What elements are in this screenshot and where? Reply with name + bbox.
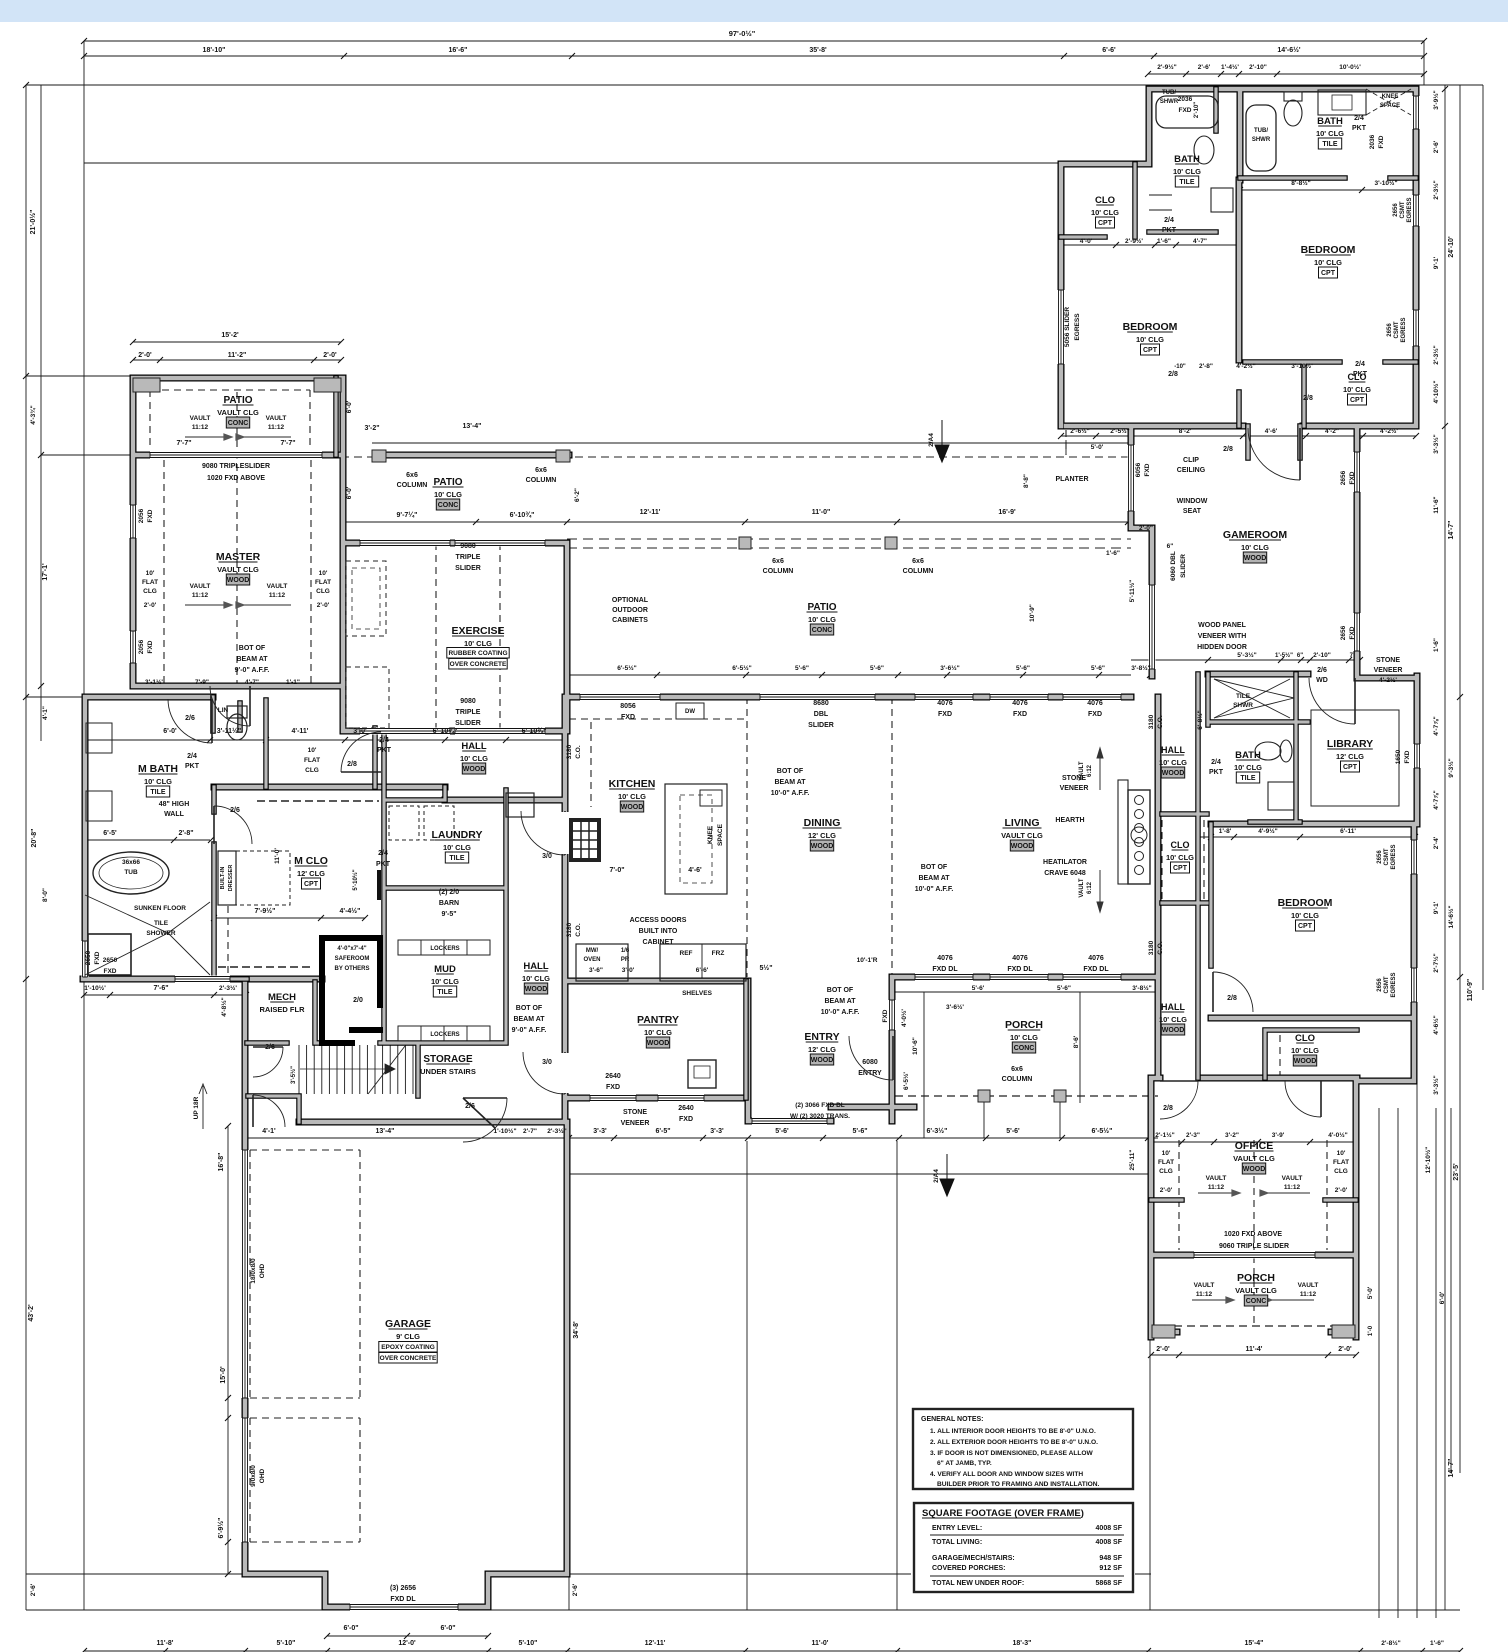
svg-text:24'-10': 24'-10': [1448, 236, 1455, 258]
svg-text:KITCHEN: KITCHEN: [609, 778, 656, 790]
svg-text:TILE: TILE: [449, 855, 464, 862]
svg-text:KNEE: KNEE: [1382, 94, 1399, 100]
svg-text:15'-2': 15'-2': [221, 332, 239, 339]
svg-text:2. ALL EXTERIOR DOOR HEIGHTS T: 2. ALL EXTERIOR DOOR HEIGHTS TO BE 8'-0"…: [930, 1439, 1098, 1446]
svg-text:5'-6": 5'-6": [795, 665, 809, 672]
svg-text:SHWR: SHWR: [1233, 702, 1253, 709]
svg-text:2'-9½": 2'-9½": [1157, 63, 1176, 71]
svg-text:FXD: FXD: [606, 1084, 620, 1091]
svg-text:FLAT: FLAT: [142, 579, 158, 586]
svg-text:11:12: 11:12: [1208, 1184, 1225, 1191]
svg-text:(3) 2656: (3) 2656: [390, 1585, 416, 1592]
svg-text:6'-2": 6'-2": [574, 488, 581, 502]
svg-text:DINING: DINING: [804, 817, 841, 829]
svg-text:FLAT: FLAT: [304, 757, 320, 764]
svg-text:1020 FXD ABOVE: 1020 FXD ABOVE: [1224, 1231, 1282, 1238]
svg-text:MASTER: MASTER: [216, 551, 261, 563]
svg-text:4'-7": 4'-7": [245, 679, 259, 686]
svg-text:CRAVE 6048: CRAVE 6048: [1044, 870, 1086, 877]
svg-text:WOOD: WOOD: [1244, 555, 1267, 562]
svg-text:2'-4': 2'-4': [1433, 836, 1440, 849]
svg-text:3'-1½': 3'-1½': [145, 678, 163, 686]
svg-text:BOT OF: BOT OF: [239, 645, 266, 652]
svg-text:LOCKERS: LOCKERS: [430, 946, 459, 952]
svg-text:2/8: 2/8: [1163, 1105, 1173, 1112]
svg-text:3180: 3180: [1148, 940, 1155, 955]
svg-text:10' CLG: 10' CLG: [1316, 129, 1344, 138]
svg-text:3'-3': 3'-3': [710, 1128, 724, 1135]
svg-text:2'-3": 2'-3": [1186, 1132, 1200, 1139]
svg-text:LOCKERS: LOCKERS: [430, 1032, 459, 1038]
svg-text:BEDROOM: BEDROOM: [1123, 321, 1178, 333]
svg-text:1650: 1650: [1395, 749, 1402, 764]
svg-text:2'-7½": 2'-7½": [1432, 953, 1440, 972]
svg-text:10' CLG: 10' CLG: [431, 977, 459, 986]
svg-text:2'-0': 2'-0': [1338, 1346, 1352, 1353]
svg-text:10' CLG: 10' CLG: [1291, 1046, 1319, 1055]
svg-text:5'-3½": 5'-3½": [1237, 651, 1256, 659]
svg-text:5'-10": 5'-10": [519, 1640, 538, 1647]
svg-text:TILE: TILE: [154, 920, 169, 927]
svg-text:4'-6': 4'-6': [688, 867, 702, 874]
svg-text:2/6: 2/6: [1317, 667, 1327, 674]
svg-text:CPT: CPT: [1143, 347, 1158, 354]
svg-text:2'-3½": 2'-3½": [1432, 345, 1440, 364]
svg-text:6'-0': 6'-0': [346, 400, 353, 413]
svg-text:11'-0': 11'-0': [274, 848, 281, 864]
svg-text:2/6: 2/6: [230, 807, 240, 814]
svg-text:FXD: FXD: [882, 1009, 889, 1022]
svg-text:RAISED FLR: RAISED FLR: [260, 1005, 306, 1014]
svg-text:WD: WD: [1316, 677, 1328, 684]
svg-text:M BATH: M BATH: [138, 763, 178, 775]
svg-text:BARN: BARN: [439, 900, 459, 907]
svg-text:TUB: TUB: [124, 869, 138, 876]
svg-text:VENEER: VENEER: [1060, 785, 1089, 792]
svg-text:20'-8": 20'-8": [31, 829, 38, 848]
svg-text:16'-9': 16'-9': [998, 509, 1016, 516]
svg-text:6'-8½": 6'-8½": [1196, 710, 1204, 729]
svg-text:HALL: HALL: [1161, 745, 1185, 755]
svg-text:STONE: STONE: [623, 1109, 647, 1116]
svg-text:HEATILATOR: HEATILATOR: [1043, 859, 1087, 866]
svg-text:4'-3¾": 4'-3¾": [29, 405, 37, 424]
svg-text:TUB/: TUB/: [1162, 90, 1176, 96]
svg-text:2650: 2650: [103, 957, 118, 964]
svg-text:SUNKEN FLOOR: SUNKEN FLOOR: [134, 905, 186, 912]
svg-text:13'-4": 13'-4": [376, 1128, 395, 1135]
svg-text:4'-1": 4'-1": [42, 706, 49, 720]
svg-text:(2) 3066 FXD DL: (2) 3066 FXD DL: [795, 1102, 845, 1109]
svg-text:FXD: FXD: [621, 714, 635, 721]
svg-text:BEAM AT: BEAM AT: [236, 656, 268, 663]
svg-text:6'-11': 6'-11': [1340, 828, 1356, 835]
svg-text:FXD: FXD: [1349, 626, 1356, 639]
svg-text:OVER CONCRETE: OVER CONCRETE: [380, 1355, 437, 1362]
svg-text:3180: 3180: [1148, 714, 1155, 729]
svg-text:PKT: PKT: [376, 861, 391, 868]
svg-text:FXD DL: FXD DL: [932, 966, 958, 973]
svg-text:12'-11': 12'-11': [640, 509, 661, 516]
svg-text:10' CLG: 10' CLG: [1314, 258, 1342, 267]
svg-text:9'-5": 9'-5": [441, 911, 456, 918]
svg-text:VAULT CLG: VAULT CLG: [217, 565, 259, 574]
svg-text:3'-0': 3'-0': [353, 728, 367, 735]
svg-text:BUILT-IN: BUILT-IN: [220, 867, 226, 890]
svg-text:SAFEROOM: SAFEROOM: [335, 956, 370, 962]
svg-text:11'-0": 11'-0": [812, 509, 831, 516]
svg-text:17'-1': 17'-1': [42, 563, 49, 581]
svg-text:PKT: PKT: [1352, 125, 1367, 132]
svg-text:BEDROOM: BEDROOM: [1278, 897, 1333, 909]
svg-text:2'-3½": 2'-3½": [547, 1127, 566, 1135]
svg-text:10' CLG: 10' CLG: [1010, 1033, 1038, 1042]
svg-text:1'-6": 1'-6": [1430, 1640, 1444, 1647]
svg-text:OHD: OHD: [259, 1263, 266, 1278]
svg-text:2'-0': 2'-0': [1156, 1346, 1170, 1353]
svg-text:2656: 2656: [1340, 470, 1347, 485]
svg-text:6x6: 6x6: [535, 467, 547, 474]
svg-text:7'-7": 7'-7": [176, 440, 191, 447]
svg-text:10' CLG: 10' CLG: [808, 615, 836, 624]
svg-text:2'-0": 2'-0": [1139, 525, 1153, 532]
svg-text:GARAGE/MECH/STAIRS:: GARAGE/MECH/STAIRS:: [932, 1555, 1015, 1562]
svg-text:OPTIONAL: OPTIONAL: [612, 597, 649, 604]
svg-text:HEARTH: HEARTH: [1055, 817, 1084, 824]
svg-text:2'-1½": 2'-1½": [1155, 1131, 1174, 1139]
svg-text:BOT OF: BOT OF: [827, 987, 854, 994]
svg-text:LAUNDRY: LAUNDRY: [432, 829, 483, 841]
svg-text:6'-0': 6'-0': [346, 486, 353, 499]
svg-text:BEAM AT: BEAM AT: [918, 875, 950, 882]
svg-text:10' CLG: 10' CLG: [144, 777, 172, 786]
svg-text:VAULT: VAULT: [1079, 878, 1085, 897]
svg-text:6056: 6056: [1135, 462, 1142, 477]
svg-text:SPACE: SPACE: [717, 823, 724, 846]
svg-text:12' CLG: 12' CLG: [808, 831, 836, 840]
svg-text:2640: 2640: [605, 1073, 621, 1080]
svg-text:STONE: STONE: [1376, 657, 1400, 664]
svg-text:FXD: FXD: [1144, 463, 1151, 476]
svg-text:PKT: PKT: [1353, 371, 1368, 378]
svg-text:WOOD: WOOD: [621, 804, 644, 811]
svg-text:7'-0": 7'-0": [609, 867, 624, 874]
svg-text:6'-0': 6'-0': [1439, 1291, 1446, 1304]
svg-text:10'-0" A.F.F.: 10'-0" A.F.F.: [821, 1009, 860, 1016]
svg-text:3'-3': 3'-3': [593, 1128, 607, 1135]
svg-text:2656: 2656: [1377, 978, 1383, 992]
svg-text:9'-1': 9'-1': [1433, 901, 1440, 914]
svg-text:2/8: 2/8: [1227, 995, 1237, 1002]
svg-text:6'-10¾": 6'-10¾": [522, 727, 547, 735]
svg-text:6'-3½": 6'-3½": [927, 1127, 948, 1135]
svg-text:10' CLG: 10' CLG: [1159, 1015, 1187, 1024]
svg-text:2'-8": 2'-8": [1199, 363, 1213, 370]
svg-text:18/0x8/0: 18/0x8/0: [250, 1258, 257, 1284]
svg-text:6'-9½": 6'-9½": [217, 1518, 225, 1539]
svg-text:WOOD: WOOD: [227, 577, 250, 584]
svg-text:1'-6": 1'-6": [1106, 550, 1120, 557]
svg-text:11:12: 11:12: [268, 424, 285, 431]
svg-text:4'-0': 4'-0': [1080, 238, 1093, 245]
svg-text:EXERCISE: EXERCISE: [451, 625, 504, 637]
svg-text:9'-3½": 9'-3½": [1447, 758, 1455, 777]
svg-text:HALL: HALL: [1161, 1002, 1185, 1012]
svg-text:10' CLG: 10' CLG: [1241, 543, 1269, 552]
svg-text:PANTRY: PANTRY: [637, 1014, 679, 1026]
svg-text:HALL: HALL: [461, 741, 487, 752]
svg-text:6" AT JAMB, TYP.: 6" AT JAMB, TYP.: [937, 1460, 992, 1467]
svg-text:2'-10": 2'-10": [1313, 652, 1331, 659]
svg-text:11'-2": 11'-2": [228, 352, 247, 359]
svg-text:(2) 2/0: (2) 2/0: [439, 889, 459, 896]
svg-text:34'-8': 34'-8': [573, 1321, 580, 1339]
svg-text:VAULT: VAULT: [1194, 1282, 1215, 1289]
svg-text:5868 SF: 5868 SF: [1096, 1580, 1123, 1587]
svg-text:10'-0½': 10'-0½': [1339, 63, 1361, 71]
svg-text:14'-7": 14'-7": [1448, 521, 1455, 540]
svg-text:4'-7": 4'-7": [1193, 238, 1207, 245]
svg-text:ENTRY: ENTRY: [804, 1031, 839, 1043]
svg-text:CABINETS: CABINETS: [612, 617, 648, 624]
svg-text:2/8: 2/8: [1223, 446, 1233, 453]
svg-text:FXD: FXD: [104, 968, 117, 975]
svg-text:CONC: CONC: [1246, 1298, 1267, 1305]
svg-text:21'-0½": 21'-0½": [29, 210, 37, 235]
svg-text:2/6: 2/6: [185, 715, 195, 722]
svg-text:13'-4": 13'-4": [463, 423, 482, 430]
svg-text:PKT: PKT: [377, 747, 392, 754]
svg-text:2/A4: 2/A4: [928, 433, 935, 447]
svg-text:12'-0': 12'-0': [398, 1640, 416, 1647]
svg-text:8680: 8680: [813, 700, 829, 707]
svg-text:11:12: 11:12: [269, 592, 286, 599]
svg-text:1. ALL INTERIOR DOOR HEIGHTS: 1. ALL INTERIOR DOOR HEIGHTS TO BE 8'-0"…: [930, 1428, 1096, 1435]
svg-text:2056: 2056: [138, 639, 145, 654]
svg-text:15'-0': 15'-0': [220, 1366, 227, 1384]
svg-text:1'-6": 1'-6": [1157, 238, 1171, 245]
svg-text:6": 6": [1167, 543, 1174, 550]
svg-text:4'-7⅞": 4'-7⅞": [1433, 716, 1440, 735]
svg-text:2/4: 2/4: [378, 850, 388, 857]
svg-text:CPT: CPT: [1098, 220, 1113, 227]
svg-text:5'-6': 5'-6': [972, 985, 985, 992]
svg-text:CEILING: CEILING: [1177, 467, 1206, 474]
svg-text:C.O.: C.O.: [575, 745, 582, 759]
svg-text:VAULT CLG: VAULT CLG: [1001, 831, 1043, 840]
svg-text:4076: 4076: [1088, 955, 1104, 962]
svg-text:2656: 2656: [1387, 323, 1393, 337]
svg-text:2/0: 2/0: [353, 997, 363, 1004]
svg-text:CONC: CONC: [1014, 1045, 1035, 1052]
svg-text:9'-0" A.F.F.: 9'-0" A.F.F.: [512, 1027, 547, 1034]
svg-text:2036: 2036: [1369, 134, 1376, 149]
svg-text:3'-6½": 3'-6½": [940, 664, 959, 672]
svg-text:6'-10¾": 6'-10¾": [433, 727, 458, 735]
svg-text:10' CLG: 10' CLG: [1136, 335, 1164, 344]
svg-text:9'-0" A.F.F.: 9'-0" A.F.F.: [235, 667, 270, 674]
svg-text:GARAGE: GARAGE: [385, 1318, 431, 1330]
svg-text:VAULT: VAULT: [1079, 761, 1085, 780]
svg-text:7'-9½": 7'-9½": [255, 907, 276, 915]
svg-text:CLG: CLG: [1334, 1168, 1348, 1175]
svg-text:9060 TRIPLE SLIDER: 9060 TRIPLE SLIDER: [1219, 1243, 1289, 1250]
svg-text:2'-6': 2'-6': [1433, 140, 1440, 153]
svg-text:BATH: BATH: [1235, 750, 1261, 761]
svg-text:CPT: CPT: [1350, 397, 1365, 404]
svg-text:6'-0': 6'-0': [163, 728, 177, 735]
svg-text:3'-8½": 3'-8½": [1132, 984, 1151, 992]
svg-text:1'-6": 1'-6": [1433, 638, 1440, 652]
svg-text:4'-2½": 4'-2½": [1236, 362, 1255, 370]
svg-text:4'-0½": 4'-0½": [1328, 1131, 1347, 1139]
svg-text:5'-6': 5'-6': [1006, 1128, 1020, 1135]
svg-text:SLIDER: SLIDER: [1180, 554, 1187, 578]
svg-text:10'-6": 10'-6": [912, 1037, 919, 1055]
svg-text:4076: 4076: [937, 700, 953, 707]
svg-text:SPACE: SPACE: [1380, 103, 1400, 109]
svg-text:FXD: FXD: [1179, 107, 1192, 114]
svg-text:-10": -10": [1174, 364, 1186, 370]
svg-text:2'-8½": 2'-8½": [1381, 1639, 1400, 1647]
svg-text:VENEER: VENEER: [621, 1120, 650, 1127]
svg-text:2656: 2656: [1340, 625, 1347, 640]
svg-text:11:12: 11:12: [1300, 1291, 1317, 1298]
svg-text:CSMT: CSMT: [1400, 201, 1406, 218]
svg-text:WOOD: WOOD: [647, 1040, 670, 1047]
svg-text:TOTAL NEW UNDER ROOF:: TOTAL NEW UNDER ROOF:: [932, 1580, 1024, 1587]
svg-text:912 SF: 912 SF: [1099, 1565, 1122, 1572]
svg-text:TILE: TILE: [437, 989, 452, 996]
svg-text:COLUMN: COLUMN: [526, 477, 557, 484]
svg-text:C.O.: C.O.: [575, 923, 582, 937]
svg-text:14'-6½": 14'-6½": [1447, 905, 1455, 928]
svg-text:EGRESS: EGRESS: [1391, 844, 1397, 869]
svg-text:1'-4½': 1'-4½': [1221, 63, 1239, 71]
svg-text:EGRESS: EGRESS: [1401, 317, 1407, 342]
svg-text:10': 10': [146, 570, 155, 577]
svg-text:3'-6": 3'-6": [589, 967, 603, 974]
svg-text:2'-6': 2'-6': [1198, 64, 1211, 71]
svg-text:FXD: FXD: [1013, 711, 1027, 718]
svg-text:2/A4: 2/A4: [933, 1169, 940, 1183]
svg-text:2'-0': 2'-0': [323, 352, 337, 359]
svg-text:6060 DBL: 6060 DBL: [1170, 551, 1177, 581]
svg-text:6'-5½": 6'-5½": [732, 664, 751, 672]
svg-text:36x66: 36x66: [122, 859, 140, 866]
svg-text:BUILDER PRIOR TO FRAMING AND I: BUILDER PRIOR TO FRAMING AND INSTALLATIO…: [937, 1481, 1100, 1488]
svg-text:COVERED PORCHES:: COVERED PORCHES:: [932, 1565, 1006, 1572]
svg-text:4'-2": 4'-2": [1325, 428, 1339, 435]
svg-text:97'-0½": 97'-0½": [729, 29, 756, 38]
svg-text:9080: 9080: [460, 698, 476, 705]
svg-text:4'-1': 4'-1': [262, 1128, 276, 1135]
svg-text:FXD: FXD: [1088, 711, 1102, 718]
svg-text:8'-6': 8'-6': [1073, 1035, 1080, 1048]
svg-text:FXD: FXD: [938, 711, 952, 718]
svg-text:WOOD: WOOD: [1011, 843, 1034, 850]
svg-text:VAULT: VAULT: [267, 583, 288, 590]
svg-text:MW/: MW/: [586, 948, 599, 954]
svg-text:5'-0': 5'-0': [1367, 1286, 1374, 1299]
svg-text:KNEE: KNEE: [707, 825, 714, 844]
svg-text:5'-6": 5'-6": [870, 665, 884, 672]
svg-text:FXD: FXD: [1349, 471, 1356, 484]
svg-text:5'-6": 5'-6": [1057, 985, 1071, 992]
svg-text:HIDDEN DOOR: HIDDEN DOOR: [1197, 644, 1247, 651]
svg-text:11'-6": 11'-6": [1433, 496, 1440, 513]
svg-text:CPT: CPT: [1173, 865, 1188, 872]
svg-text:VAULT: VAULT: [266, 415, 287, 422]
svg-text:7'-6": 7'-6": [153, 985, 168, 992]
svg-text:2/4: 2/4: [1355, 361, 1365, 368]
svg-text:6'-0": 6'-0": [440, 1625, 455, 1632]
svg-text:10'-1'R: 10'-1'R: [857, 957, 878, 964]
svg-text:8'-0": 8'-0": [42, 888, 49, 902]
svg-text:10'-0" A.F.F.: 10'-0" A.F.F.: [915, 886, 954, 893]
svg-text:3180: 3180: [566, 744, 573, 759]
svg-text:2'-8": 2'-8": [178, 830, 193, 837]
svg-text:WOOD: WOOD: [525, 986, 548, 993]
svg-text:TOTAL LIVING:: TOTAL LIVING:: [932, 1539, 982, 1546]
svg-text:2650: 2650: [85, 950, 92, 965]
svg-text:FXD: FXD: [1378, 135, 1385, 148]
svg-text:3'-9½": 3'-9½": [1432, 90, 1440, 109]
svg-text:4'-9½": 4'-9½": [1258, 827, 1277, 835]
svg-text:2'-3½": 2'-3½": [1432, 180, 1440, 199]
svg-text:10' CLG: 10' CLG: [1234, 763, 1262, 772]
svg-text:ENTRY LEVEL:: ENTRY LEVEL:: [932, 1525, 982, 1532]
svg-text:9' CLG: 9' CLG: [396, 1332, 420, 1341]
svg-text:2'-7": 2'-7": [523, 1128, 537, 1135]
svg-text:10' CLG: 10' CLG: [1291, 911, 1319, 920]
svg-text:EPOXY COATING: EPOXY COATING: [381, 1344, 435, 1351]
svg-text:WOOD: WOOD: [1243, 1166, 1266, 1173]
svg-text:5'-11½": 5'-11½": [1128, 580, 1136, 603]
svg-text:PATIO: PATIO: [807, 602, 836, 613]
svg-text:EGRESS: EGRESS: [1391, 972, 1397, 997]
svg-text:8'-2': 8'-2': [1179, 428, 1192, 435]
svg-text:BOT OF: BOT OF: [777, 768, 804, 775]
svg-text:4'-11': 4'-11': [292, 728, 309, 735]
svg-text:9080: 9080: [460, 543, 476, 550]
svg-text:2'-6½": 2'-6½": [1070, 427, 1089, 435]
svg-text:43'-2': 43'-2': [28, 1304, 35, 1322]
svg-text:3'-8½": 3'-8½": [1131, 664, 1150, 672]
svg-text:5'-10½": 5'-10½": [352, 869, 359, 890]
svg-text:2/6: 2/6: [465, 1103, 475, 1110]
svg-text:1/6: 1/6: [621, 948, 630, 954]
svg-text:6'-5½': 6'-5½': [902, 1072, 910, 1090]
svg-text:4'-8½": 4'-8½": [220, 997, 228, 1016]
svg-text:4'-2½': 4'-2½': [1379, 676, 1397, 684]
svg-text:3'-2": 3'-2": [364, 425, 379, 432]
svg-text:FXD: FXD: [94, 951, 101, 964]
svg-text:2/8: 2/8: [1168, 371, 1178, 378]
svg-text:1020 FXD ABOVE: 1020 FXD ABOVE: [207, 475, 265, 482]
svg-text:PORCH: PORCH: [1005, 1019, 1043, 1031]
svg-text:PKT: PKT: [1162, 227, 1177, 234]
svg-text:8056: 8056: [620, 703, 636, 710]
svg-text:5'-10": 5'-10": [277, 1640, 296, 1647]
svg-text:6'-6': 6'-6': [696, 967, 709, 974]
svg-text:VENEER WITH: VENEER WITH: [1198, 633, 1247, 640]
svg-text:14'-6½': 14'-6½': [1277, 46, 1301, 54]
svg-text:3'-3½": 3'-3½": [1432, 1075, 1440, 1094]
svg-text:11:12: 11:12: [192, 424, 209, 431]
svg-text:3'-5½": 3'-5½": [290, 1066, 297, 1084]
svg-text:UNDER STAIRS: UNDER STAIRS: [420, 1067, 476, 1076]
